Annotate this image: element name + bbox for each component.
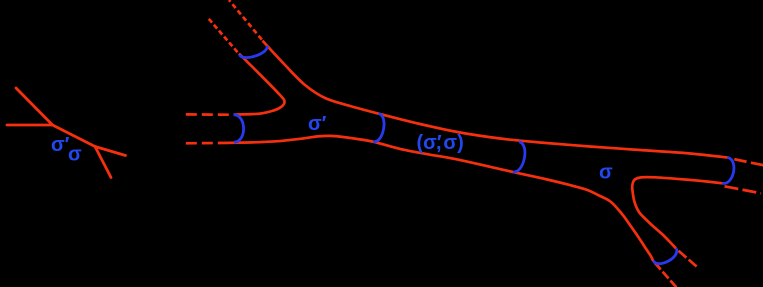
spine graph: edge up-left leg [16, 88, 53, 125]
band upper-left branch left edge + corner + left branch top edge [234, 54, 285, 115]
spine graph: edge left horizontal leg [7, 124, 53, 127]
tie arc bottom branch [653, 248, 677, 263]
tie arc left branch [234, 115, 244, 143]
spine graph: edge down leg [95, 147, 111, 178]
band down-branch lower edge dashed continuation [655, 263, 677, 287]
band upper-left branch left edge dashed continuation [209, 19, 238, 52]
spine graph: wire junction1 to junction2 [53, 125, 96, 147]
spine graph: edge right leg [95, 147, 126, 156]
band right branch bottom edge dashed continuation [725, 186, 762, 193]
tie arc (sigma-prime,sigma) band [513, 142, 525, 172]
tie arc upper-left branch [240, 46, 268, 58]
band left branch top edge dashed continuation [185, 113, 229, 116]
band down-branch upper edge dashed continuation [679, 251, 698, 267]
svg-text:σ′: σ′ [51, 134, 70, 156]
band top boundary (upper-left branch right edge to right end) [263, 41, 728, 158]
svg-text:σ: σ [599, 162, 613, 184]
svg-text:σ: σ [68, 144, 82, 166]
svg-text:σ′: σ′ [308, 113, 327, 135]
band inner crotch boundary (right branch bottom edge + down branch upper edge) [632, 177, 722, 248]
band top boundary dashed continuation (right) [734, 159, 763, 166]
band upper-left branch right edge dashed continuation [229, 0, 262, 40]
tie arc sigma-prime band [373, 114, 384, 142]
band bottom boundary (left branch bottom edge to down-branch lower edge) [228, 136, 653, 261]
tie arc right branch [722, 157, 734, 183]
svg-text:(σ′,σ): (σ′,σ) [417, 132, 464, 154]
band left branch bottom edge dashed continuation [185, 142, 229, 145]
